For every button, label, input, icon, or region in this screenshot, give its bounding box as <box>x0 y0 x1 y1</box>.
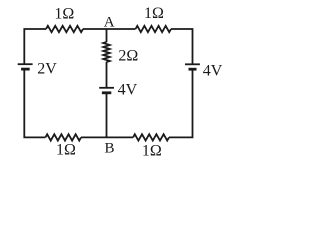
svg-text:1Ω: 1Ω <box>144 5 164 22</box>
svg-text:2Ω: 2Ω <box>118 47 138 64</box>
wire middle branch lower (to node B) <box>106 93 108 138</box>
wire bottom-left corner + left lower segment <box>24 69 45 137</box>
wire middle branch between resistor and battery <box>106 62 108 88</box>
battery V2 4V right: short plate <box>189 68 197 71</box>
resistor R3 1ohm bottom-left zigzag <box>45 134 81 140</box>
resistor R2 1ohm top-right zigzag <box>136 26 172 32</box>
svg-text:4V: 4V <box>203 63 223 80</box>
resistor R1 1ohm top-left zigzag <box>46 26 83 32</box>
battery V3 4V middle: short plate <box>102 91 111 94</box>
svg-text:B: B <box>104 140 114 156</box>
svg-text:4V: 4V <box>118 82 138 99</box>
battery V1 2V left: long plate <box>18 63 33 65</box>
svg-text:2V: 2V <box>37 61 57 78</box>
resistor R4 1ohm bottom-right zigzag <box>133 134 169 140</box>
svg-text:1Ω: 1Ω <box>54 5 74 22</box>
svg-text:1Ω: 1Ω <box>56 142 76 159</box>
wire middle branch upper (node A down) <box>106 29 108 42</box>
resistor R5 2ohm middle vertical zigzag <box>103 42 109 62</box>
wire top-left corner segment <box>24 29 46 64</box>
wire top-right corner segment <box>171 29 193 64</box>
battery V2 4V right: long plate <box>185 63 200 65</box>
wire bottom middle segment <box>81 136 133 138</box>
wire right lower + bottom-right corner <box>169 69 193 137</box>
wire top middle segment <box>83 28 136 30</box>
battery V3 4V middle: long plate <box>99 87 114 89</box>
svg-text:A: A <box>104 14 115 30</box>
battery V1 2V left: short plate <box>21 68 30 71</box>
svg-text:1Ω: 1Ω <box>142 143 162 160</box>
